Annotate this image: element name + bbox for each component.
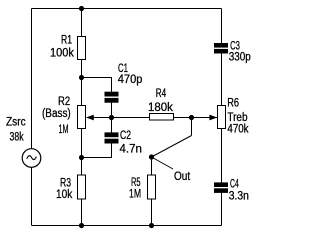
svg-text:1M: 1M bbox=[59, 124, 69, 136]
resistor R5 bbox=[148, 175, 156, 199]
resistor R1 bbox=[78, 37, 86, 60]
wire Out label pointer bbox=[152, 157, 174, 169]
wire R2 to node B bbox=[81, 129, 83, 175]
wire node A to C1 top bbox=[82, 78, 112, 92]
svg-text:3.3n: 3.3n bbox=[229, 191, 249, 203]
wire R5 to bottom rail bbox=[151, 200, 153, 226]
svg-text:38k: 38k bbox=[10, 132, 24, 144]
svg-text:R1: R1 bbox=[61, 35, 72, 47]
svg-text:330p: 330p bbox=[229, 52, 251, 64]
resistor R3 bbox=[78, 175, 86, 199]
svg-text:180k: 180k bbox=[148, 102, 173, 114]
wire bottom rail bbox=[32, 225, 222, 227]
capacitor C3 bbox=[214, 43, 228, 54]
svg-text:R3: R3 bbox=[60, 177, 71, 189]
capacitor C2 bbox=[105, 132, 119, 143]
svg-text:470p: 470p bbox=[118, 74, 143, 86]
wire node D drop bbox=[191, 118, 193, 136]
junction node D bbox=[189, 115, 194, 120]
svg-text:C4: C4 bbox=[230, 179, 239, 191]
wire top rail bbox=[32, 8, 222, 10]
capacitor C1 bbox=[105, 92, 119, 103]
svg-text:(Bass): (Bass) bbox=[42, 108, 71, 120]
svg-text:100k: 100k bbox=[50, 48, 74, 60]
svg-text:4.7n: 4.7n bbox=[120, 143, 142, 155]
svg-text:10k: 10k bbox=[56, 189, 72, 201]
svg-text:Out: Out bbox=[174, 171, 191, 183]
capacitor C4 bbox=[214, 182, 228, 193]
wire R6 to C4 bbox=[221, 129, 223, 183]
wire Out node to R5 bbox=[151, 157, 153, 175]
svg-text:R2: R2 bbox=[58, 96, 70, 108]
svg-text:470k: 470k bbox=[227, 123, 248, 135]
wire R1 to R2 bbox=[81, 60, 83, 106]
wire right column top to C3 bbox=[221, 9, 223, 44]
wire C3 to R6 bbox=[221, 54, 223, 106]
junction top rail / R1 bbox=[79, 6, 84, 11]
svg-text:R5: R5 bbox=[131, 177, 141, 189]
source Zsrc bbox=[22, 149, 41, 168]
wire R2 wiper to R4 bbox=[87, 117, 150, 119]
svg-text:1M: 1M bbox=[129, 188, 141, 200]
svg-text:R4: R4 bbox=[156, 88, 167, 100]
wire C1 to C2 bbox=[111, 103, 113, 133]
wire diagonal node D to Out node bbox=[152, 136, 192, 158]
potentiometer R6 bbox=[209, 106, 225, 129]
wire R4 to R6 wiper bbox=[174, 117, 217, 119]
wire R3 to bottom rail bbox=[81, 200, 83, 226]
svg-text:R6: R6 bbox=[227, 98, 239, 110]
junction wiper / C column bbox=[109, 115, 114, 120]
wire C2 bottom to node B bbox=[82, 144, 112, 158]
wire C4 to bottom rail bbox=[221, 193, 223, 226]
wire top rail to R1 bbox=[81, 9, 83, 37]
junction R3 / bottom rail bbox=[79, 223, 84, 228]
svg-text:Treb: Treb bbox=[227, 112, 247, 124]
junction node B bbox=[79, 155, 84, 160]
potentiometer R2 bbox=[78, 106, 94, 129]
svg-text:C2: C2 bbox=[120, 130, 131, 142]
junction R5 / bottom rail bbox=[149, 223, 154, 228]
svg-text:Zsrc: Zsrc bbox=[6, 117, 26, 129]
wire left column upper bbox=[31, 9, 33, 149]
junction node A bbox=[79, 75, 84, 80]
junction Out node bbox=[149, 154, 154, 159]
wire left column lower bbox=[31, 167, 33, 225]
resistor R4 bbox=[150, 114, 174, 121]
